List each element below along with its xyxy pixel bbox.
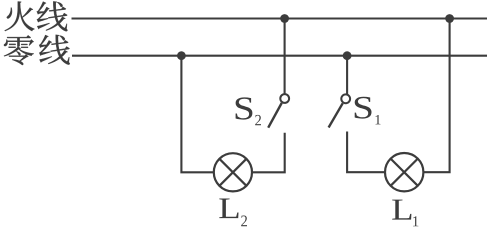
wire: live bus down to S2 pivot [284, 19, 286, 94]
node: live-S2 junction [280, 14, 289, 23]
label 火线 (live wire) [5, 1, 68, 31]
label S2 [236, 97, 261, 125]
lamp L1 [385, 153, 423, 191]
switch S2 lever [268, 103, 282, 128]
wire: lamp L1 right lead up to live bus [423, 19, 449, 173]
wire: neutral junction down to S1 pivot [346, 56, 348, 94]
wire: neutral bus [72, 55, 487, 57]
node: neutral-left junction [177, 51, 186, 60]
switch S1 pivot circle [341, 94, 350, 103]
wire: S2 lower terminal to lamp L2 right lead [252, 133, 285, 173]
label L2 [219, 199, 247, 227]
node: live-right junction [445, 14, 454, 23]
wire: neutral junction down and right to lamp L2 [181, 56, 213, 173]
node: neutral-S1 junction [343, 51, 352, 60]
wire: live bus [72, 17, 488, 19]
label L1 [392, 200, 418, 227]
label S1 [355, 97, 381, 125]
switch S1 lever [329, 103, 343, 127]
wire: S1 lower terminal to lamp L1 left lead [347, 132, 385, 173]
label 零线 (neutral wire) [4, 35, 70, 65]
lamp L2 [214, 153, 252, 191]
switch S2 pivot circle [280, 94, 289, 103]
